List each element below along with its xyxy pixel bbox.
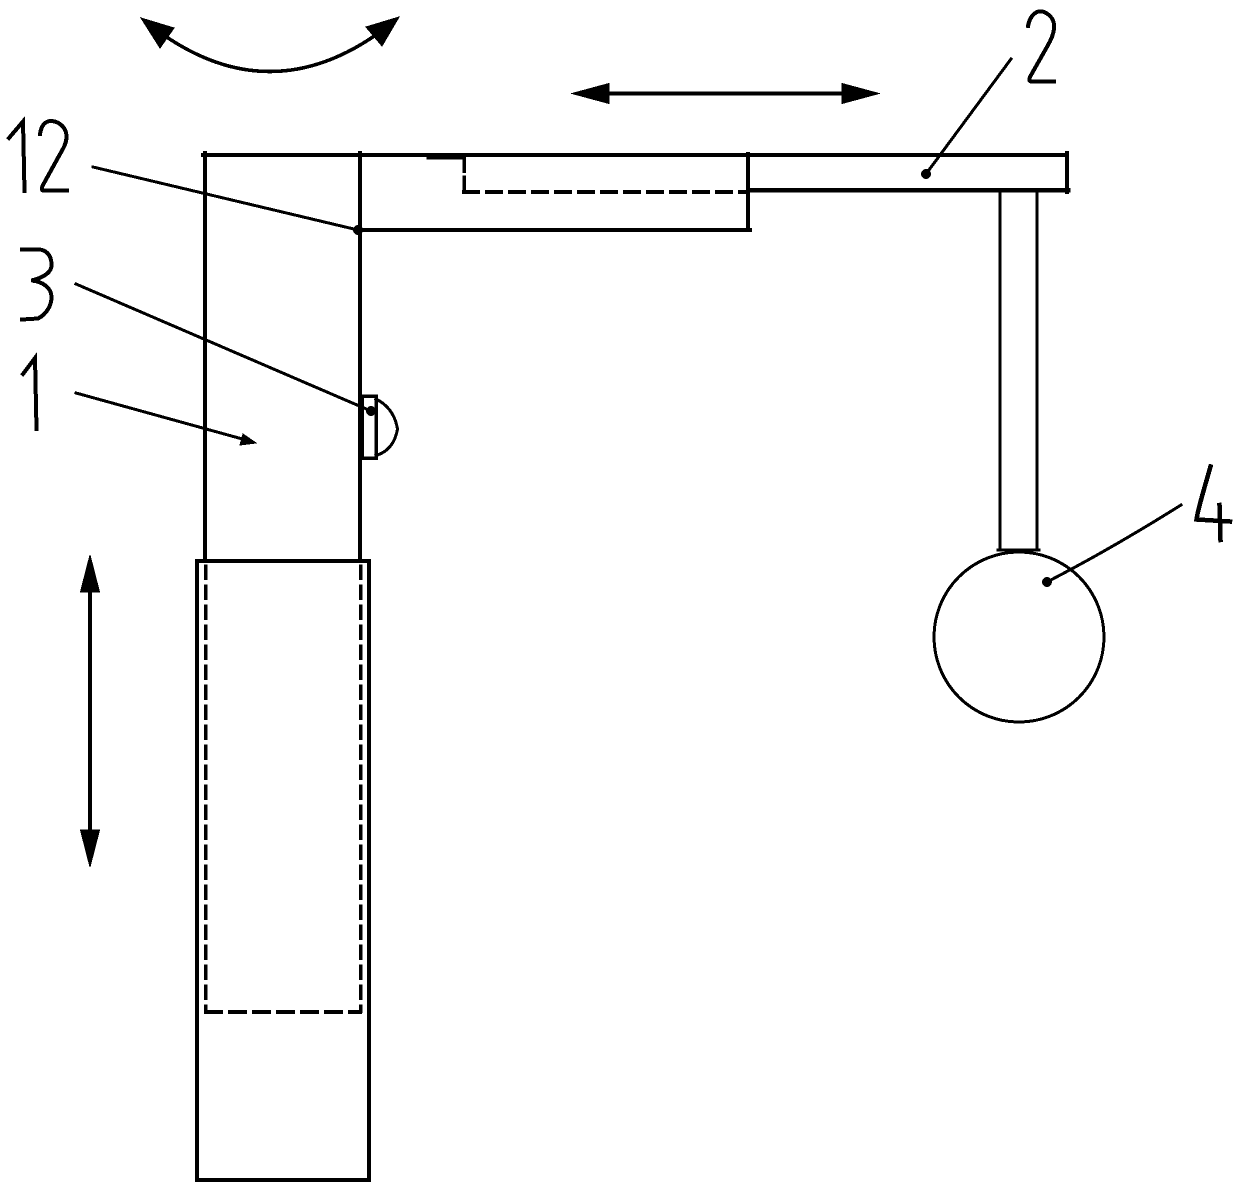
horizontal motion arrow left head (572, 84, 609, 104)
hidden arm edge horizontal (dashed) (464, 190, 746, 194)
label 12 digit 2 (40, 121, 67, 191)
column 1 top edge / arm top edge (203, 153, 1067, 157)
hidden column left edge (dashed) (204, 566, 208, 1011)
label 4 (1197, 467, 1231, 541)
hidden column right edge (dashed) (359, 566, 363, 1011)
rotation arrow arc (150, 23, 392, 72)
rotation arrow right head (366, 17, 399, 46)
vertical motion arrow line (88, 589, 92, 833)
label 2 (1028, 11, 1054, 81)
label 3 (22, 250, 52, 320)
arm 2 bottom edge (748, 188, 1068, 193)
rotation arrow left head (141, 18, 174, 48)
clamp component 3 knob arc (376, 399, 398, 456)
sleeve outer rectangle (197, 561, 369, 1180)
leader dot for label 4 (1042, 577, 1052, 587)
leader arrowhead for label 1 (240, 434, 256, 445)
vertical motion arrow bottom head (81, 830, 100, 867)
ball 4 (934, 552, 1104, 722)
rod right edge (1036, 192, 1039, 550)
hidden column bottom edge (dashed) (206, 1010, 360, 1014)
leader line for label 4 (1047, 505, 1181, 582)
slide housing bottom edge (358, 228, 750, 232)
leader dot for label 3 (366, 406, 376, 416)
slide housing right edge (746, 154, 750, 230)
leader dot for label 12 (353, 225, 363, 235)
label 12 digit 1 (9, 122, 25, 192)
leader line for label 1 (76, 393, 246, 440)
leader dot for label 2 (921, 169, 931, 179)
label 1 (23, 358, 37, 429)
vertical motion arrow top head (81, 555, 100, 592)
leader line for label 2 (926, 59, 1011, 174)
hidden arm edge vertical (dashed) (462, 156, 466, 191)
horizontal motion arrow line (605, 92, 846, 96)
leader line for label 12 (93, 167, 358, 230)
rod left edge (999, 192, 1002, 550)
housing top inner edge segment (428, 157, 464, 160)
leader line for label 3 (76, 284, 371, 411)
column 1 right edge (358, 153, 362, 561)
clamp component 3 body (362, 396, 376, 458)
horizontal motion arrow right head (842, 84, 879, 104)
rod bottom junction (998, 549, 1039, 552)
arm 2 right edge (1065, 153, 1069, 192)
column 1 left edge (203, 153, 207, 561)
